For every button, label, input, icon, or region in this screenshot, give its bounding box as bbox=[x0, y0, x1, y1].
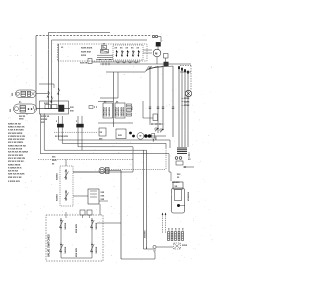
svg-text:XXXXX: XXXXX bbox=[65, 222, 67, 229]
svg-text:X XX X XX XXX: X XX X XX XXX bbox=[8, 130, 24, 132]
svg-text:VALVE SWITCHES: VALVE SWITCHES bbox=[47, 234, 51, 257]
svg-text:XXXX: XXXX bbox=[81, 55, 87, 57]
svg-text:X XXXX XXX: X XXXX XXX bbox=[8, 181, 20, 183]
svg-text:XXXXXXX: XXXXXXX bbox=[187, 192, 189, 202]
svg-text:XXXXXXX: XXXXXXX bbox=[109, 106, 111, 116]
svg-text:XXXX: XXXX bbox=[44, 103, 50, 105]
svg-text:X XXXX XX X XX: X XXXX XX X XX bbox=[8, 136, 26, 138]
svg-text:XX X XX XXXX: XX X XX XXXX bbox=[8, 142, 23, 144]
svg-text:XXXX: XXXX bbox=[182, 245, 188, 247]
svg-text:XXX XX: XXX XX bbox=[80, 63, 88, 65]
svg-text:X X XX XX XX: X X XX XX XX bbox=[8, 149, 23, 151]
svg-text:XXXXX: XXXXX bbox=[65, 246, 67, 253]
svg-text:XXXX X XXX XX: XXXX X XXX XX bbox=[8, 126, 25, 128]
svg-text:XXXXXX: XXXXXX bbox=[144, 230, 146, 238]
svg-text:X XXXX XX X: X XXXX XX X bbox=[8, 167, 22, 169]
svg-text:XX XX XX XXX: XX XX XX XXX bbox=[8, 155, 23, 157]
svg-text:XXX XX XX XXX: XXX XX XX XXX bbox=[8, 139, 25, 141]
svg-text:XX XX XX: XX XX XX bbox=[8, 171, 19, 173]
svg-text:XX XX XX XX XXXX: XX XX XX XX XXXX bbox=[8, 152, 28, 154]
svg-text:XXXXX: XXXXX bbox=[57, 173, 59, 180]
svg-text:XXXX XX XX: XXXX XX XX bbox=[8, 123, 21, 125]
svg-text:XXXXXXX: XXXXXXX bbox=[123, 106, 125, 116]
svg-text:XXXX: XXXX bbox=[184, 102, 190, 104]
svg-text:XXX XX X XX: XXX XX X XX bbox=[8, 177, 22, 179]
svg-text:XXXXX: XXXXX bbox=[96, 222, 98, 229]
svg-text:XXXXX: XXXXX bbox=[57, 194, 59, 201]
svg-text:XXXX: XXXX bbox=[184, 105, 190, 107]
svg-text:XXX XX XX XXX: XXX XX XX XXX bbox=[8, 174, 25, 176]
svg-text:XXXX XXXX: XXXX XXXX bbox=[8, 164, 21, 166]
svg-text:XX X XX XXX XX: XX X XX XXX XX bbox=[8, 158, 26, 160]
svg-text:XXXX XXX XX XX: XXXX XXX XX XX bbox=[8, 145, 26, 147]
svg-text:XXXXX: XXXXX bbox=[41, 119, 48, 121]
svg-text:XX XX X XX XX: XX XX X XX XX bbox=[8, 161, 24, 163]
svg-text:XXX XXX: XXX XXX bbox=[76, 223, 78, 233]
svg-text:XXXXX: XXXXX bbox=[96, 246, 98, 253]
svg-text:XXX XXX: XXX XXX bbox=[76, 247, 78, 257]
svg-text:XXXX XXX: XXXX XXX bbox=[81, 52, 92, 54]
svg-text:XXXX XX: XXXX XX bbox=[41, 116, 50, 118]
svg-text:XXXX XXXX: XXXX XXXX bbox=[81, 48, 93, 50]
svg-text:XX XXX X XXX: XX XXX X XXX bbox=[55, 136, 69, 138]
svg-text:XXXX: XXXX bbox=[184, 98, 190, 100]
svg-text:XXXXXX: XXXXXX bbox=[172, 182, 180, 184]
svg-text:XX XXX XXXX: XX XXX XXXX bbox=[8, 133, 23, 135]
